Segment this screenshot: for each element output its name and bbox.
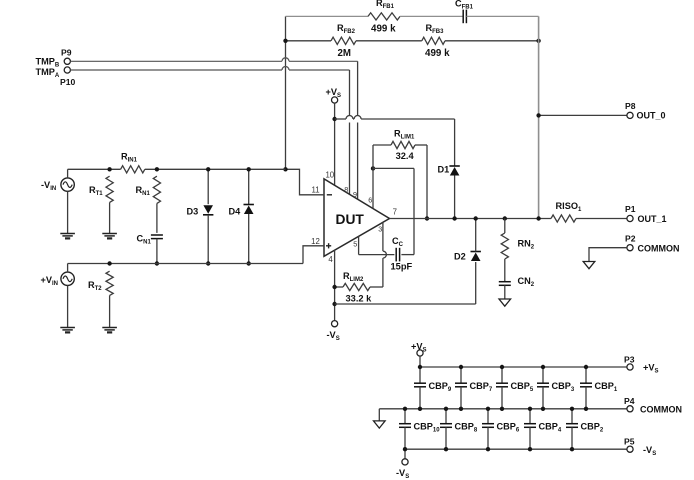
terminal P5 -Vs [627,446,633,452]
junction: RLIM2 at pin4 line [332,285,336,289]
svg-text:499 k: 499 k [371,24,396,35]
capacitor CBP4 [529,409,531,424]
wire: top feedback row (RFB1+CFB1) left lead [286,15,369,17]
capacitor CBP7 [460,367,462,383]
svg-text:D3: D3 [187,207,199,217]
wire: D1 anode lead to output wire [454,176,456,219]
wire: bypass top rail to P3 [420,366,627,368]
wire: inverting input from left network into pin 11 [286,169,325,195]
capacitor CBP6 [487,409,489,424]
wire: pin 3 vertical with hop over Cc lead [382,222,384,251]
svg-text:P1: P1 [625,204,636,214]
svg-text:COMMON: COMMON [640,405,682,415]
junction: D2 return at pin4 line [332,302,336,306]
wire: CN1 to lower rail [156,239,158,264]
svg-text:10: 10 [325,171,334,180]
svg-text:P2: P2 [625,234,636,244]
wire: RN2 top lead [504,219,506,234]
resistor RIN1 [121,166,145,173]
wire: top row between RFB1 and CFB1 [400,15,463,17]
wire: output from pin 7 to P1 [390,218,552,220]
node: RLIM1/pin6 junction [371,166,375,170]
capacitor CBP10 [404,409,406,424]
wire: TMP_A net to pin 8 with hop over feedback vertical [70,69,282,71]
terminal -Vs below DUT [332,321,338,327]
svg-text:12: 12 [311,237,320,246]
capacitor Cc 15pF [396,248,399,262]
svg-text:D1: D1 [438,165,450,175]
svg-text:499 k: 499 k [425,48,450,59]
svg-text:P5: P5 [624,437,635,447]
wire: top row right lead to right vertical [466,15,538,17]
capacitor CBP8 [445,409,447,424]
wire: -VIN lower lead to ground [67,191,69,233]
diode D4 [244,204,254,206]
resistor RISO1 [551,215,576,222]
junction: P8 branch [536,113,540,117]
junction: inverting node at feedback vertical [283,167,287,171]
terminal -Vs bypass network [402,459,408,465]
resistor RN2 [501,233,508,259]
svg-text:P8: P8 [625,101,636,111]
junction: right vertical at output [536,216,540,220]
diode D2 [471,251,481,253]
wire: D1 cathode lead down from +Vs row [454,119,456,166]
diode D3 [203,214,213,216]
wire: D4 upper lead [248,169,250,204]
wire: P2 to ground [589,248,627,262]
svg-text:7: 7 [393,208,397,217]
resistor RT1 [106,176,113,202]
capacitor CN1 [151,235,163,239]
op-amp DUT triangle [324,179,390,256]
junction: row2 left [283,39,287,43]
wire: +VIN to lower input rail [67,264,69,273]
source -VIN [61,178,74,191]
wire: D3 upper lead [207,169,209,204]
terminal P8 OUT_0 [627,112,633,118]
capacitor CBP9 [419,367,421,383]
svg-text:33.2 k: 33.2 k [346,293,373,303]
terminal P4 COMMON [627,406,633,412]
junction: D3 top [206,167,210,171]
wire: D2 cathode to output [475,219,477,252]
capacitor CBP3 [542,367,544,383]
wire: Cc right lead [401,254,414,256]
junction: RLIM1 output connection [425,216,429,220]
source +VIN [61,272,74,285]
wire: RN2 to CN2 [504,259,506,282]
svg-text:4: 4 [328,255,333,264]
terminal +Vs bypass network [417,350,423,356]
wire: RN1 to CN1 [156,203,158,233]
wire: pin 4 down to -Vs terminal [334,250,336,320]
svg-text:DUT: DUT [336,212,365,227]
wire: +VIN lower lead to ground [67,286,69,328]
junction: row2 right [536,39,540,43]
junction: +Vs node [332,117,336,121]
wire: TMP_B net to pin 9 with hop over feedback vertical [70,60,282,62]
svg-text:P4: P4 [624,396,635,406]
terminal P2 COMMON [627,245,633,251]
svg-text:11: 11 [311,186,319,195]
wire: RT2 to ground [109,295,111,327]
junction: RT1 at input rail [107,167,111,171]
resistor RT2 [106,271,113,295]
wire: D3 lower lead [207,215,209,264]
wire: TMP_A vertical below +Vs row into pin 8 [349,123,351,195]
wire: RLIM1 left lead down to pin6 node [372,145,374,168]
svg-text:D4: D4 [229,207,242,217]
wire: +Vs terminal to top rail [419,356,421,367]
svg-text:D2: D2 [454,252,466,262]
wire: pin 6 vertical [372,168,374,208]
junction: RN2 at output [503,216,507,220]
junction: D1 at output [452,216,456,220]
terminal P3 +Vs [627,364,633,370]
terminal P9 TMP_B [64,58,70,64]
resistor RFB1 [368,13,400,20]
wire: bypass middle rail to P4 [379,408,627,410]
wire: TMP_B vertical below +Vs row into pin 9 [357,123,359,200]
junction: D4 bottom [247,261,251,265]
svg-text:9: 9 [353,190,357,199]
svg-text:OUT_0: OUT_0 [637,111,666,121]
diode D1 [449,165,459,167]
ground below RT1 [102,234,117,236]
resistor RLIM1 [391,141,415,148]
wire: -VIN to upper input rail [67,169,69,178]
wire: RT1 to ground [109,202,111,233]
svg-text:6: 6 [368,195,372,204]
wire: row2 right segment [445,40,539,42]
wire: bypass bottom rail to P5 [405,448,627,450]
wire: input rail RIN1 to RN1 to diodes to feedback node [145,168,286,170]
capacitor CBP2 [571,409,573,424]
capacitor CBP1 [585,367,587,383]
ground below +VIN [60,328,75,330]
wire: right vertical from top row to output node [538,16,540,218]
terminal P10 TMP_A [64,67,70,73]
svg-text:P3: P3 [624,355,635,365]
ground at bypass middle rail [374,421,386,428]
resistor RFB2 [331,37,356,44]
junction: D3 bottom [206,261,210,265]
capacitor CN2 [499,282,511,286]
junction: RT2 at lower rail [107,261,111,265]
ground below -VIN [60,234,75,236]
svg-text:5: 5 [353,239,357,248]
junction: D4 top [247,167,251,171]
junction: CN1 at lower rail [155,261,159,265]
wire: pin 5 down to Cc left lead [358,236,360,254]
wire: row2 middle segment [356,40,422,42]
resistor RLIM2 [343,283,370,290]
wire: RLIM2 right lead [370,286,383,288]
terminal P1 OUT_1 [627,215,633,221]
resistor RFB3 [422,37,445,44]
wire: D4 lower lead [248,214,250,264]
wire: left feedback vertical from top row down to inverting input node [285,16,287,169]
junction: D2 at output [474,216,478,220]
wire: CN2 to ground [504,285,506,299]
svg-text:OUT_1: OUT_1 [638,214,667,224]
capacitor CFB1 [463,10,466,24]
ground at P2 [583,262,595,269]
svg-text:P9: P9 [61,48,72,58]
svg-text:COMMON: COMMON [638,244,680,254]
terminal +Vs supply at op-amp [332,97,338,103]
wire: second feedback row RFB2+RFB3 [286,40,332,42]
ground below CN2 [499,299,511,306]
wire: middle rail stub to ground [378,409,380,421]
wire: bottom rail to -Vs terminal [404,449,406,459]
svg-text:8: 8 [344,185,348,194]
svg-text:2M: 2M [338,48,351,59]
wire: D2 return row [335,303,476,305]
op-amp inverting input marker [327,194,332,196]
wire: non-inverting input step into pin 12 [303,246,324,264]
wire: pin6 node over to Cc right lead [373,167,414,169]
capacitor CBP5 [501,367,503,383]
svg-text:3: 3 [378,224,382,233]
wire: +Vs terminal down to junction and into pin 10 [334,103,336,185]
wire: +Vs row to D1 with hops over pin8/pin9 wires [335,118,346,120]
op-amp non-inverting input marker [326,245,331,247]
svg-text:P10: P10 [60,77,76,87]
wire: RLIM1 right lead down to output [426,145,428,219]
junction: RN1 at input rail [155,167,159,171]
wire: P8 branch from right vertical [539,114,627,116]
svg-text:32.4: 32.4 [396,151,415,161]
ground below RT2 [102,328,117,330]
svg-text:15pF: 15pF [391,262,413,272]
resistor RN1 [153,176,160,203]
